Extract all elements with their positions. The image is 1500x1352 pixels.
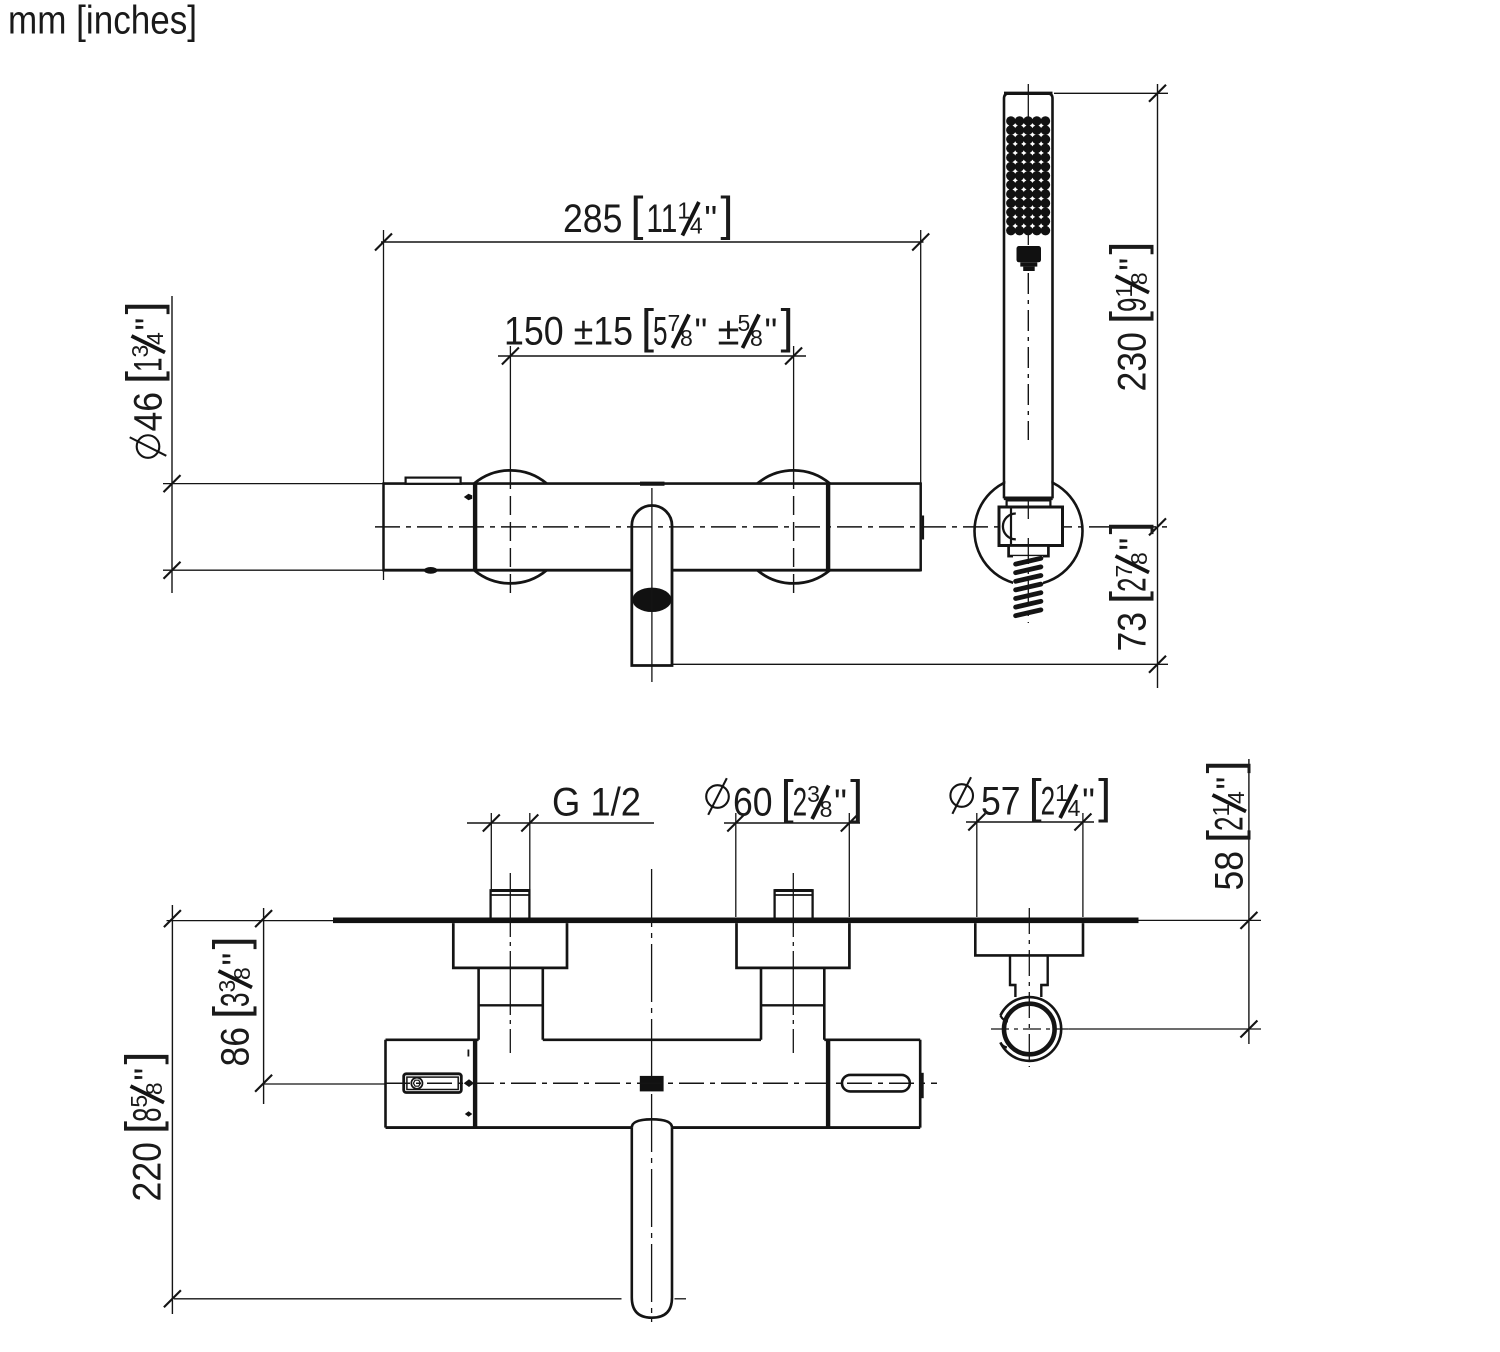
underside button (black pill)	[424, 567, 437, 574]
holder centerline horizontal	[991, 1028, 1068, 1030]
svg-text:": "	[127, 1068, 168, 1081]
escutcheon circle left (top view)	[474, 470, 547, 483]
svg-text:4: 4	[690, 213, 703, 239]
temperature button mark (arrow)	[464, 494, 472, 500]
svg-text:46: 46	[127, 392, 171, 432]
spout outlet (black ellipse)	[632, 588, 671, 612]
wand axis	[1027, 84, 1029, 245]
svg-text:": "	[695, 311, 708, 352]
svg-text:": "	[1112, 258, 1153, 271]
svg-text:2: 2	[793, 781, 808, 825]
spout axis (bottom)	[651, 869, 653, 1322]
right valve axis	[793, 346, 795, 470]
holder axis (bottom)	[1028, 908, 1030, 1067]
svg-text:285: 285	[563, 197, 622, 241]
svg-text:8: 8	[680, 325, 693, 351]
hose connector outer clip arc	[1000, 997, 1061, 1061]
svg-text:]: ]	[1198, 760, 1251, 773]
escutcheon circle right (top view)	[757, 470, 830, 483]
svg-text:": "	[704, 198, 717, 239]
bold divider left (bottom)	[473, 1040, 477, 1128]
svg-text:60: 60	[733, 781, 773, 825]
svg-text:[: [	[630, 187, 643, 240]
svg-text:4: 4	[142, 332, 168, 345]
dimension Ø60	[724, 822, 860, 824]
svg-text:±: ±	[718, 310, 740, 354]
dimension 220	[171, 905, 173, 1314]
svg-text:]: ]	[720, 187, 733, 240]
svg-text:3: 3	[214, 992, 258, 1007]
svg-text:58: 58	[1208, 851, 1252, 891]
svg-text:73: 73	[1111, 612, 1155, 652]
dimension Ø57	[966, 821, 1094, 823]
svg-text:]: ]	[204, 936, 257, 949]
svg-text:8: 8	[750, 325, 763, 351]
right cap end step	[922, 516, 924, 540]
svg-text:11: 11	[646, 197, 677, 241]
right escutcheon (bottom)	[737, 923, 850, 968]
svg-text:5: 5	[653, 310, 668, 354]
left valve neck	[477, 968, 480, 1040]
svg-text:": "	[765, 311, 778, 352]
wall-mixer spout (top view)	[632, 505, 672, 665]
svg-text:8: 8	[229, 967, 255, 980]
diverter mark on top edge	[640, 482, 665, 486]
left valve axis (bottom)	[509, 873, 511, 1053]
G1/2 stub right	[775, 890, 813, 917]
dimension 230 / 73	[1157, 84, 1159, 688]
hose axis below	[1027, 498, 1029, 524]
svg-text:]: ]	[116, 1051, 169, 1064]
dimension 58	[1248, 759, 1250, 1044]
svg-text:57: 57	[981, 780, 1021, 824]
bottom view centerline	[264, 1083, 385, 1085]
dimension 150 ±15	[498, 355, 806, 357]
svg-text:]: ]	[781, 300, 794, 353]
mixer bar (bottom view)	[386, 1039, 479, 1042]
svg-text:2: 2	[1208, 816, 1252, 831]
svg-text:2: 2	[1041, 780, 1056, 824]
svg-text:8: 8	[141, 1082, 167, 1095]
right valve axis (bottom)	[792, 873, 794, 1053]
left escutcheon (bottom)	[453, 923, 567, 968]
top tab on left cap	[406, 478, 461, 484]
hose coil (spring)	[1016, 558, 1041, 564]
spout (bottom view)	[632, 1119, 672, 1127]
svg-text:": "	[215, 953, 256, 966]
mixer body outline (top view)	[384, 482, 921, 485]
bold divider left (temperature handle)	[473, 484, 477, 571]
svg-text:86: 86	[214, 1027, 258, 1067]
shower holder (bottom view) escutcheon	[975, 923, 1083, 955]
svg-text:G 1/2: G 1/2	[552, 781, 641, 825]
svg-text:8: 8	[1126, 272, 1152, 285]
wand button	[1017, 246, 1042, 262]
svg-text:": "	[128, 318, 169, 331]
hose connector ring (bold)	[1004, 1004, 1055, 1055]
svg-text:": "	[1209, 777, 1250, 790]
wand lower mask	[1005, 440, 1051, 497]
index marks near divider	[467, 1050, 469, 1057]
dimension Ø46 (rotated)	[171, 296, 173, 593]
temperature handle slot	[404, 1074, 462, 1093]
diverter knob (black)	[640, 1076, 664, 1092]
spout axis line	[651, 488, 653, 682]
dimension G 1/2	[467, 822, 654, 824]
svg-text:9: 9	[1111, 298, 1155, 313]
holder block inner edge	[1010, 507, 1012, 546]
svg-text:8: 8	[1126, 552, 1152, 565]
holder step	[1009, 546, 1049, 557]
holder clip arc	[1003, 514, 1016, 540]
svg-text:2: 2	[1111, 577, 1155, 592]
svg-text:mm [inches]: mm [inches]	[8, 0, 197, 43]
shower holder circle	[975, 477, 1083, 585]
right valve neck	[760, 968, 763, 1040]
svg-text:230: 230	[1111, 332, 1155, 391]
wall (thick line)	[333, 918, 1139, 924]
svg-text:4: 4	[1068, 795, 1081, 821]
svg-text:]: ]	[1101, 241, 1154, 254]
svg-text:": "	[834, 782, 847, 823]
holder neck	[1010, 955, 1048, 997]
svg-text:": "	[1082, 781, 1095, 822]
volume handle slot (pill)	[842, 1075, 910, 1092]
svg-text:4: 4	[1223, 791, 1249, 804]
svg-text:": "	[1112, 538, 1153, 551]
spray face dot matrix	[1006, 116, 1050, 235]
svg-text:]: ]	[1098, 770, 1111, 823]
left valve axis	[509, 346, 511, 470]
wand bottom bold line	[1004, 496, 1053, 500]
G1/2 stub left	[491, 890, 530, 917]
holder block	[999, 507, 1063, 546]
svg-text:150 ±15: 150 ±15	[504, 310, 633, 354]
svg-text:1: 1	[127, 357, 171, 372]
dimension 285	[381, 241, 924, 243]
svg-text:220: 220	[126, 1142, 170, 1201]
dimension 86	[263, 908, 265, 1104]
bold divider right (volume handle)	[826, 484, 830, 571]
svg-text:8: 8	[820, 796, 833, 822]
bold divider right (bottom)	[826, 1040, 830, 1128]
main horizontal centerline	[375, 526, 1168, 528]
svg-text:]: ]	[117, 301, 170, 314]
hand shower wand	[1004, 93, 1053, 498]
svg-text:8: 8	[126, 1108, 170, 1123]
svg-text:]: ]	[1101, 521, 1154, 534]
holder nut strip	[1007, 500, 1051, 507]
svg-text:]: ]	[850, 771, 863, 824]
hose coil backing	[1013, 556, 1043, 616]
